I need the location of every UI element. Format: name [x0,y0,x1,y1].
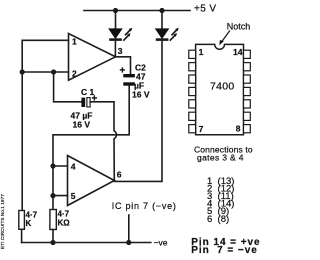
svg-text:6: 6 [117,170,122,180]
svg-text:16 V: 16 V [132,90,150,100]
svg-text:+: + [120,66,126,77]
svg-text:−ve: −ve [154,237,168,247]
wire C1 left lead [54,72,82,102]
wire C2 bottom lead to gate2 inputs [53,86,129,210]
svg-text:gates 3 & 4: gates 3 & 4 [197,153,244,163]
node R2 rail junction [50,240,55,245]
svg-text:1: 1 [72,36,77,46]
wire R1 bottom [21,229,23,242]
svg-text:8: 8 [236,123,241,133]
wire LED1 anode [115,11,117,30]
IC left pins 1-7 [189,50,196,133]
svg-text:KΩ: KΩ [58,219,71,228]
wire LED2 cathode down to gate2 output [114,40,162,182]
svg-text:+: + [92,94,98,105]
node LED2 rail junction [159,8,164,13]
wire IC pin7 stub [128,215,130,243]
wire pin5 input [53,195,68,197]
svg-text:2: 2 [72,68,77,78]
svg-text:7400: 7400 [210,80,235,92]
svg-text:14: 14 [233,47,243,57]
node C1 tap junction [51,69,56,74]
svg-text:16 V: 16 V [73,120,91,130]
wire pin4 input [53,165,68,167]
node pin5 junction [50,193,55,198]
wire gate1 output to C2 [116,57,131,74]
IC right pins 8-14 [244,50,251,133]
node IC pin7 rail junction [126,240,131,245]
wire LED1 cathode to gate1 output [114,40,116,57]
gate U1a (pins 1,2 in / 3 out) [69,34,116,81]
LED D2 [156,28,179,40]
wire pin2 input [22,71,68,73]
capacitor C1 [81,98,90,107]
svg-text:7: 7 [199,124,204,134]
IC U1 7400 DIP-14 body [196,44,244,134]
wire LED2 anode [161,11,163,30]
svg-text:IC pin 7 (−ve): IC pin 7 (−ve) [112,201,177,211]
svg-text:K: K [26,219,32,228]
wire pin1 input [22,40,68,210]
wire -ve bottom rail [22,242,151,244]
svg-text:4: 4 [71,161,76,171]
svg-text:Pin 7 = −ve: Pin 7 = −ve [191,245,257,256]
svg-text:6 (8): 6 (8) [207,214,229,225]
LED D1 [109,28,132,40]
resistor R1 4.7K [19,211,25,230]
wire R2 bottom [52,230,54,243]
Notch leader arrow [222,31,230,42]
capacitor C2 [123,74,135,86]
node pin4 junction [50,163,55,168]
gate U1b (pins 4,5 in / 6 out) [68,156,115,206]
svg-text:ETI CIRCUITS No.1 1977: ETI CIRCUITS No.1 1977 [0,194,6,249]
resistor R2 4.7K [50,210,56,230]
svg-text:4·7: 4·7 [58,210,70,219]
wire +5V top rail [84,10,190,12]
svg-text:3: 3 [118,46,123,56]
svg-text:+5 V: +5 V [194,3,216,14]
wire C1 right lead down to pin6 (hops over C2 wire) [90,102,117,181]
svg-text:Notch: Notch [227,21,251,31]
node LED1 rail junction [113,8,118,13]
svg-text:1: 1 [199,47,204,57]
svg-text:5: 5 [71,191,76,201]
node gate1 input junction [20,69,25,74]
